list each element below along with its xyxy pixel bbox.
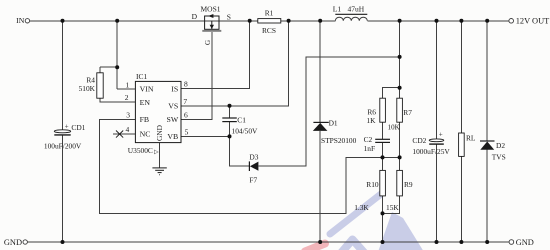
svg-text:510K: 510K (79, 84, 96, 93)
wire R6 branch (383, 88, 400, 99)
capacitor CD1 (electrolytic) (44, 122, 86, 150)
svg-text:D1: D1 (329, 119, 338, 128)
svg-text:3: 3 (126, 110, 130, 119)
svg-text:100uF/200V: 100uF/200V (44, 142, 82, 151)
wire IS pin to top rail (181, 21, 250, 89)
svg-text:2: 2 (125, 93, 129, 102)
svg-text:6: 6 (184, 110, 188, 119)
wire VB pin (181, 122, 230, 136)
wire D3 anode to divider top (258, 57, 399, 166)
svg-text:1.3K: 1.3K (354, 203, 369, 212)
svg-text:VIN: VIN (140, 85, 154, 94)
wire IC ground lead (159, 143, 161, 168)
svg-text:VB: VB (167, 132, 178, 141)
wire FB net (100, 119, 400, 213)
wire CD2 column (436, 21, 438, 242)
wire R6 to C2 (382, 122, 384, 139)
pin number 5 (185, 127, 189, 136)
resistor R4 510K (79, 73, 104, 98)
node FB C2 (381, 155, 385, 159)
wire NC pin stub (113, 133, 135, 135)
wire VS pin to top rail (181, 21, 289, 106)
node ground rail R10 (381, 240, 385, 244)
svg-text:1K: 1K (366, 116, 376, 125)
node top rail R7 (398, 19, 402, 23)
svg-text:▷: ▷ (154, 149, 159, 155)
svg-text:EN: EN (140, 98, 151, 107)
transistor MOS1 (192, 5, 231, 46)
terminal GND right (509, 238, 534, 247)
svg-text:+: + (65, 122, 69, 130)
diode D3 F7 (249, 153, 258, 185)
node top rail D1 (318, 19, 322, 23)
terminal IN (16, 16, 29, 25)
ground (IC earth symbol) (152, 168, 166, 175)
wire R10 bottom to ground rail (382, 196, 384, 242)
resistor R6 1K (366, 98, 385, 125)
svg-text:RCS: RCS (262, 26, 276, 35)
svg-text:10K: 10K (388, 123, 400, 131)
wire C2 to R10 (382, 143, 384, 171)
svg-text:4: 4 (125, 125, 129, 134)
wire R4 bottom to EN pin (100, 98, 135, 102)
svg-text:R10: R10 (366, 180, 379, 189)
terminal 12V OUT (509, 17, 549, 26)
pin number 1 (125, 80, 129, 89)
svg-text:IS: IS (171, 84, 178, 93)
svg-text:GND: GND (4, 238, 22, 247)
node top rail CD1 (61, 19, 65, 23)
svg-text:+: + (439, 131, 443, 139)
no-connect X on pin 4 (116, 131, 123, 138)
wire R9 bottom bracket (383, 196, 400, 214)
wire R4 top branch (100, 67, 117, 73)
node ground rail D1 (318, 240, 322, 244)
node R10 R9 bottom (381, 211, 385, 215)
wire R7 to R9 (399, 122, 401, 170)
svg-text:15K: 15K (386, 203, 399, 212)
svg-text:47uH: 47uH (348, 5, 365, 14)
svg-text:R6: R6 (367, 108, 376, 117)
node R4 top (115, 65, 119, 69)
svg-text:D3: D3 (249, 153, 258, 162)
wire SW to gate column (181, 32, 212, 119)
svg-text:IC1: IC1 (136, 72, 148, 81)
svg-text:NC: NC (140, 130, 151, 139)
svg-text:U3500C: U3500C (128, 146, 153, 155)
capacitor C1 104/50V (222, 115, 258, 135)
svg-text:1000uF/25V: 1000uF/25V (412, 147, 450, 156)
node top rail D2 (485, 19, 489, 23)
resistor R10 1.3K (354, 170, 385, 212)
diode D1 STPS20100 (313, 119, 357, 146)
diode D2 TVS (480, 141, 506, 161)
wire VIN column (117, 21, 135, 89)
node R6 R7 top (398, 86, 402, 90)
node VS C1 (228, 104, 232, 108)
svg-text:5: 5 (185, 127, 189, 136)
pin number 7 (183, 97, 187, 106)
wire VB to D3 cathode (230, 136, 250, 166)
svg-text:S: S (227, 13, 231, 22)
resistor RL (459, 133, 476, 156)
svg-text:1nF: 1nF (364, 144, 376, 153)
node ground rail CD1 (61, 240, 65, 244)
svg-text:1: 1 (125, 80, 129, 89)
svg-text:GND: GND (155, 124, 164, 141)
svg-text:IN: IN (16, 16, 25, 25)
resistor R1 (258, 8, 281, 35)
svg-text:F7: F7 (249, 175, 257, 184)
node FB R9 (398, 155, 402, 159)
svg-text:STPS20100: STPS20100 (321, 136, 357, 145)
svg-text:104/50V: 104/50V (232, 126, 259, 135)
resistor R9 15K (386, 170, 413, 212)
node ground rail D2 (485, 240, 489, 244)
node ground rail RL (459, 240, 463, 244)
svg-text:MOS1: MOS1 (200, 5, 220, 14)
svg-text:VS: VS (168, 101, 178, 110)
svg-text:7: 7 (183, 97, 187, 106)
svg-text:CD2: CD2 (412, 136, 426, 145)
node top rail RL (459, 19, 463, 23)
inductor L1 47uH (333, 5, 368, 21)
pin number 6 (184, 110, 188, 119)
wire RL column (460, 21, 462, 242)
wire top rail (30, 20, 509, 22)
node top rail R1 left (248, 19, 252, 23)
svg-text:CD1: CD1 (71, 123, 85, 132)
watermark blue band 2 (378, 212, 424, 250)
svg-text:12V OUT: 12V OUT (516, 17, 550, 26)
wire C1 top (229, 106, 231, 118)
op-amp IC U3500C box (128, 72, 181, 155)
wire R7 column top (399, 21, 401, 98)
node top rail VIN (115, 19, 119, 23)
capacitor C2 1nF (364, 135, 390, 153)
wire CD1 column (62, 21, 64, 242)
node top rail CD2 (435, 19, 439, 23)
node VB C1 (228, 134, 232, 138)
svg-text:C1: C1 (237, 115, 246, 124)
svg-text:R1: R1 (265, 8, 274, 17)
watermark blue band 1 (330, 194, 381, 234)
wire D1 column (319, 21, 321, 242)
pin number 4 (125, 125, 129, 134)
capacitor CD2 1000uF/25V (412, 131, 450, 156)
svg-text:8: 8 (184, 79, 188, 88)
svg-text:FB: FB (140, 115, 150, 124)
node divider top (398, 55, 402, 59)
wire bottom ground rail (28, 241, 510, 243)
svg-text:TVS: TVS (492, 152, 506, 161)
pin number 3 (126, 110, 130, 119)
terminal GND left (4, 238, 28, 247)
svg-text:R4: R4 (86, 75, 95, 84)
svg-text:L1: L1 (333, 5, 342, 14)
pin number 2 (125, 93, 129, 102)
wire D2 column (486, 21, 488, 242)
svg-text:R9: R9 (404, 180, 413, 189)
node ground rail CD2 (435, 240, 439, 244)
svg-text:SW: SW (166, 115, 178, 124)
svg-text:R7: R7 (403, 108, 412, 117)
pin number 8 (184, 79, 188, 88)
svg-text:GND: GND (516, 238, 534, 247)
svg-text:D2: D2 (496, 141, 505, 150)
svg-text:G: G (204, 40, 212, 45)
svg-text:RL: RL (466, 134, 476, 143)
watermark blue chevron (341, 240, 365, 250)
node top rail R1 right (287, 19, 291, 23)
watermark pink stroke (305, 244, 325, 250)
svg-text:D: D (192, 12, 198, 21)
resistor R7 10K (388, 98, 413, 131)
